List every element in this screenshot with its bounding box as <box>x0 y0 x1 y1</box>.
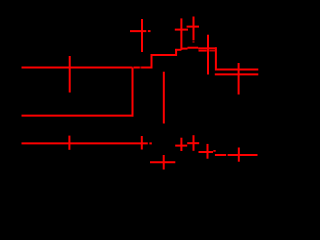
wire stair riser 3 down <box>215 47 217 70</box>
wire under-dash b <box>209 50 215 52</box>
wire rail L5 segment a <box>215 154 226 156</box>
component cross C5 horizontal <box>187 142 199 144</box>
component cross C7 on L5 <box>238 148 240 162</box>
component cross C5 vertical <box>193 135 195 151</box>
wire L1 dim patch a <box>132 67 134 69</box>
component cross C6 vertical <box>207 144 209 159</box>
transistor Q2 vertical lead <box>193 17 195 41</box>
component cross C4 horizontal <box>175 145 187 147</box>
transistor Q1 vertical lead <box>180 18 182 50</box>
wire vertical drop at node B <box>207 35 209 75</box>
transistor Q2 horizontal bar <box>187 26 199 28</box>
component cross R1 on bus <box>238 63 240 95</box>
component cross C4 vertical <box>180 138 182 151</box>
wire rail L3 <box>22 142 148 144</box>
wire rail L3 end dash <box>149 142 151 144</box>
wire L1 dim patch b <box>140 67 142 69</box>
wire under-dash a <box>199 50 207 52</box>
wire floating vertical net N1 <box>163 72 165 124</box>
component cross C2 on L3 <box>141 136 143 150</box>
wire rail L5 segment b <box>228 154 258 156</box>
component cross M1 on rail L1 <box>69 56 71 93</box>
wire stair tread 5 <box>198 47 216 49</box>
capacitor C1 vertical lead <box>141 19 143 52</box>
wire branch vertical to L2 <box>132 68 134 117</box>
capacitor C1 horizontal plate <box>130 30 146 32</box>
wire main rail L1 <box>22 67 152 69</box>
junction tick J1 on L3 <box>68 136 70 150</box>
wire rail L2 <box>22 115 134 117</box>
component cross C3 on L4 <box>163 155 165 170</box>
wire bus upper H1 <box>216 69 258 71</box>
wire stair riser 2 <box>175 49 177 56</box>
component cross C6 horizontal dash <box>213 150 215 152</box>
wire rail L4 <box>150 161 175 163</box>
transistor Q1 horizontal bar <box>175 29 188 31</box>
transistor Q2 lead dash <box>193 41 195 42</box>
wire stair tread 2 <box>175 49 181 51</box>
wire stair tread 1 <box>151 54 177 56</box>
wire stair tread 3 <box>181 48 187 50</box>
component cross C6 horizontal <box>199 151 214 153</box>
wire stair tread 4 peak <box>188 47 199 49</box>
wire stair riser 1 <box>151 54 153 69</box>
wire bus lower H2 <box>215 73 258 75</box>
capacitor C1 plate dash <box>148 30 151 32</box>
